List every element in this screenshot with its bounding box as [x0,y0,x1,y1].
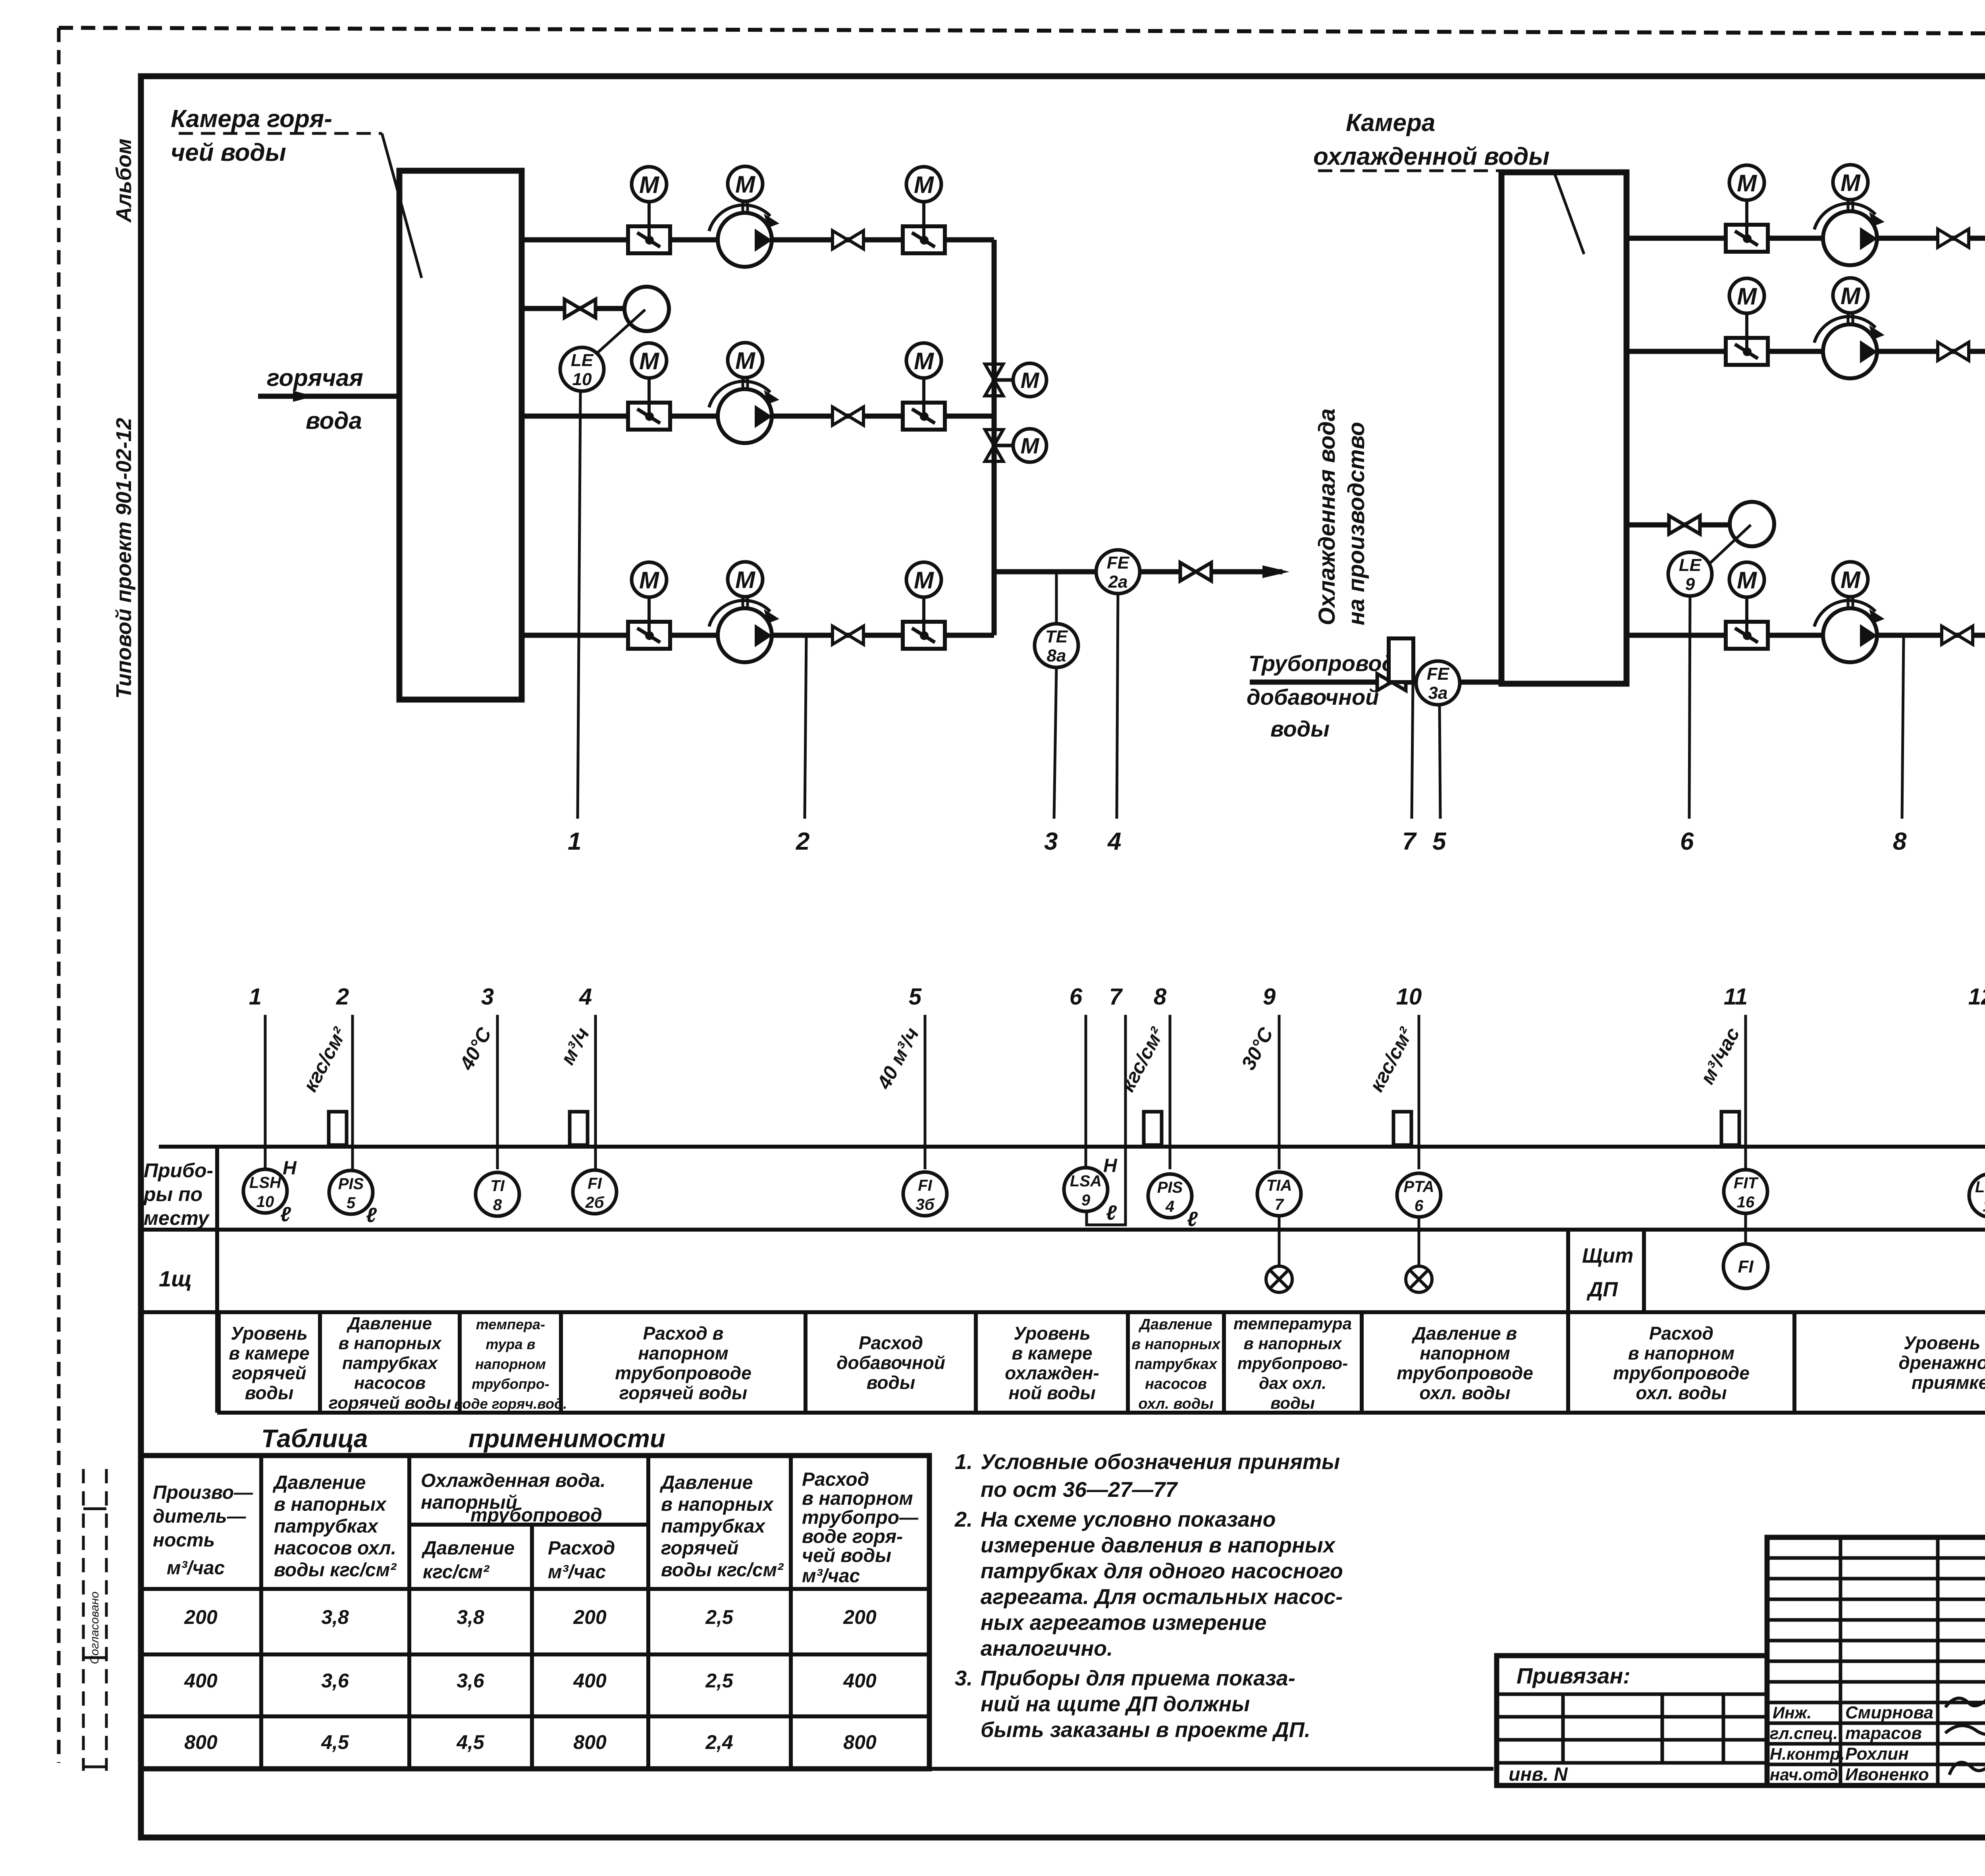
signal line 3 from TE8a [1054,667,1056,819]
svg-text:воды: воды [1270,716,1330,741]
svg-text:4,5: 4,5 [456,1731,485,1753]
svg-text:3.: 3. [955,1666,973,1690]
svg-text:ДП: ДП [1586,1278,1619,1301]
svg-text:LSA: LSA [1975,1178,1985,1196]
svg-text:Расход: Расход [1649,1323,1713,1344]
table row 400 [184,1670,877,1692]
suction valve R1 [1726,200,1768,252]
signature scribbles [1945,1688,1985,1775]
alarm lamp PTA6 [1406,1266,1432,1292]
svg-text:тура в: тура в [486,1336,536,1352]
svg-text:в камере: в камере [229,1343,309,1363]
level element LE10 link [595,310,645,355]
svg-text:добавочной: добавочной [836,1352,945,1373]
signal line 1 from LE10 [578,392,580,819]
check valve L1 [833,231,863,249]
check valve R2 [1938,342,1969,361]
svg-text:4: 4 [1107,828,1121,855]
make-up water pipe [1250,680,1501,685]
pipe pump line R3 [1627,633,1985,638]
svg-text:патрубках: патрубках [342,1353,438,1373]
svg-text:10: 10 [1396,984,1422,1010]
notes text [954,1450,1343,1742]
svg-text:ной воды: ной воды [1008,1382,1095,1403]
svg-text:ний на щите ДП должны: ний на щите ДП должны [981,1692,1250,1716]
svg-text:патрубках для одного насосн: патрубках для одного насосного [981,1559,1343,1583]
svg-text:200: 200 [184,1606,218,1628]
svg-text:трубопрово-: трубопрово- [1237,1354,1348,1373]
inline sensor body [1721,1112,1739,1145]
svg-text:в камере: в камере [1012,1343,1092,1363]
header vent valve lower left [985,430,1013,461]
inline sensor body [570,1112,588,1145]
svg-text:Трубопровод: Трубопровод [1249,651,1395,676]
flow indicator FI on panel [1723,1244,1768,1288]
check valve R1 [1938,229,1969,247]
switch LSH10 [243,1169,287,1213]
svg-text:нач.отд.: нач.отд. [1770,1765,1842,1784]
pipe pump line L1 [522,237,994,243]
svg-text:вода: вода [306,407,362,434]
svg-text:3а: 3а [1428,683,1448,703]
description cell 2 [320,1312,451,1413]
svg-text:4: 4 [579,984,592,1010]
band line bottom [217,1411,1985,1415]
svg-text:400: 400 [573,1670,607,1692]
hot water inlet pipe [258,391,399,402]
svg-text:M: M [914,567,935,594]
svg-text:800: 800 [573,1731,607,1753]
svg-text:Давление: Давление [421,1538,515,1559]
svg-text:3,8: 3,8 [321,1606,349,1628]
description cell 11 [1794,1312,1985,1413]
svg-text:воды: воды [867,1372,915,1393]
level element LE9 link [1705,525,1751,568]
svg-text:темпера-: темпера- [476,1316,545,1332]
svg-text:10: 10 [256,1193,274,1211]
svg-text:2б: 2б [585,1194,604,1211]
svg-text:M: M [1737,170,1758,197]
svg-text:горячей: горячей [232,1363,306,1383]
level tap valve [565,299,595,318]
svg-text:Давление: Давление [659,1472,753,1493]
svg-text:Щит: Щит [1582,1244,1633,1267]
thermometer TI8 [476,1172,519,1216]
svg-text:12: 12 [1968,984,1985,1010]
band line lower [141,1310,1985,1314]
svg-text:9: 9 [1081,1192,1091,1209]
table row 200 [184,1606,877,1628]
svg-text:LSA: LSA [1070,1172,1102,1190]
svg-text:9: 9 [1263,984,1276,1010]
svg-text:ных агрегатов измерение: ных агрегатов измерение [981,1611,1266,1635]
svg-text:2а: 2а [1108,572,1128,592]
svg-text:1: 1 [568,828,581,855]
level float chamber right [1730,502,1774,546]
svg-text:Н: Н [1103,1155,1118,1176]
svg-text:охл. воды: охл. воды [1138,1396,1213,1412]
flow transmitter FIT16 [1724,1170,1767,1213]
svg-text:в напорных: в напорных [338,1334,442,1353]
svg-text:насосов: насосов [354,1373,426,1393]
svg-text:Уровень в: Уровень в [1904,1332,1985,1353]
make-up valve [1377,674,1406,690]
check valve L2 [833,407,863,425]
leader line kamera2 [1318,171,1584,254]
svg-text:FE: FE [1107,553,1130,573]
table header col6 [802,1469,919,1587]
svg-text:1щ: 1щ [159,1266,192,1291]
svg-text:напорном: напорном [1420,1343,1510,1363]
svg-text:8: 8 [1154,984,1167,1010]
svg-text:воды: воды [245,1382,293,1403]
outlet valve left [1180,563,1211,581]
svg-text:горячей воды: горячей воды [619,1382,747,1403]
svg-text:воде горяч.вод.: воде горяч.вод. [454,1396,567,1412]
thermometer TIA7 [1257,1172,1301,1216]
flow element FE2a [1096,550,1140,594]
svg-text:охлажденной воды: охлажденной воды [1313,143,1549,170]
svg-text:FI: FI [588,1175,602,1192]
svg-text:м³/час: м³/час [548,1562,606,1583]
svg-text:LE: LE [571,351,594,370]
svg-text:TE: TE [1045,627,1068,646]
svg-text:Камера горя-: Камера горя- [171,105,332,133]
svg-text:трубопро-: трубопро- [472,1376,549,1392]
outlet pipe after FE2a [1139,569,1181,575]
svg-text:M: M [1840,283,1861,309]
table header col3-4 span [421,1470,615,1583]
svg-text:тарасов: тарасов [1845,1724,1922,1743]
svg-text:ℓ: ℓ [366,1204,377,1227]
svg-text:Таблица: Таблица [261,1424,368,1453]
svg-text:LE: LE [1679,555,1702,575]
pump R1 [1814,200,1885,265]
signal to FI [1744,1213,1747,1244]
inline sensor body [329,1112,347,1145]
signature grid [1767,1537,1985,1785]
svg-text:M: M [735,567,756,593]
svg-text:приямке: приямке [1912,1372,1985,1393]
pipe pump line L3 [522,633,994,638]
svg-text:4,5: 4,5 [321,1731,349,1753]
hot side discharge header [992,240,997,635]
svg-text:2,5: 2,5 [705,1606,734,1628]
svg-text:M: M [914,348,935,374]
svg-text:агрегата. Для остальных н: агрегата. Для остальных насос- [981,1585,1343,1609]
transmitter PTA6 [1397,1173,1441,1217]
signal line 8 tap [1902,635,1904,819]
svg-text:Приборы для приема показ: Приборы для приема показа- [981,1666,1295,1690]
svg-text:2.: 2. [954,1508,973,1531]
svg-text:м³/час: м³/час [802,1566,860,1587]
svg-text:Согласовано: Согласовано [88,1592,101,1664]
discharge valve L2 [903,378,945,430]
svg-text:в напорном: в напорном [802,1488,913,1509]
svg-text:Инж.: Инж. [1773,1703,1812,1722]
svg-text:TIA: TIA [1266,1177,1292,1194]
svg-text:3б: 3б [915,1196,935,1213]
svg-text:напорном: напорном [638,1343,728,1363]
level tap pipe right [1627,523,1730,528]
suction valve R2 [1726,313,1768,365]
svg-text:Альбом: Альбом [112,139,136,223]
svg-text:2,5: 2,5 [705,1670,734,1692]
description cell 8 [1224,1312,1352,1413]
privyazan box [1497,1656,1767,1785]
svg-text:M: M [639,348,660,374]
signature labels [1770,1703,1933,1784]
svg-text:Ивоненко: Ивоненко [1845,1765,1929,1784]
switch LSA9 [1064,1168,1108,1211]
svg-text:4: 4 [1165,1198,1174,1215]
svg-text:M: M [735,347,756,374]
signal line 6 from LE9 [1689,595,1690,819]
gauge PIS4 [1148,1174,1192,1218]
svg-text:M: M [735,171,756,198]
svg-text:Охлажденная вода: Охлажденная вода [1314,409,1340,625]
svg-text:в напорных: в напорных [1243,1334,1342,1353]
svg-text:м³/час: м³/час [167,1558,225,1579]
table header col2 [272,1472,397,1581]
svg-text:1: 1 [249,984,262,1010]
svg-text:дренажном: дренажном [1898,1352,1985,1373]
alarm lamp TIA7 [1266,1266,1292,1292]
hook line 7 to LSA9 [1087,1169,1125,1225]
svg-text:на производство: на производство [1343,422,1369,625]
svg-text:напорном: напорном [475,1356,546,1372]
header vent valve upper left [985,364,1013,396]
suction valve L1 [628,202,670,253]
svg-text:Давление в: Давление в [1411,1323,1517,1344]
svg-text:быть заказаны в проекте: быть заказаны в проекте ДП. [981,1718,1310,1742]
svg-text:2: 2 [796,828,809,855]
svg-text:кгс/см²: кгс/см² [299,1024,351,1095]
svg-text:5: 5 [909,984,922,1010]
svg-text:температура: температура [1233,1314,1352,1333]
svg-text:кгс/см²: кгс/см² [1116,1024,1169,1095]
svg-text:M: M [1737,567,1758,594]
svg-text:2: 2 [336,984,349,1010]
svg-text:400: 400 [184,1670,218,1692]
svg-text:Давление: Давление [272,1472,366,1493]
svg-text:9: 9 [1685,575,1695,594]
band line middle [141,1228,1985,1232]
pump R2 [1814,313,1885,378]
applicability table grid [141,1456,929,1769]
description cell 10 [1568,1312,1750,1413]
hot water chamber [399,171,522,700]
svg-text:M: M [914,172,935,198]
svg-text:Н: Н [283,1158,297,1179]
svg-text:измерение давления в напорны: измерение давления в напорных [981,1533,1336,1557]
discharge valve L1 [903,202,945,253]
svg-text:FI: FI [918,1177,932,1194]
svg-text:5: 5 [347,1194,356,1212]
svg-text:Типовой проект 901-02-12: Типовой проект 901-02-12 [112,418,136,699]
svg-text:кгс/см²: кгс/см² [423,1562,490,1583]
svg-text:Произво—: Произво— [153,1482,253,1503]
description cell 7 [1128,1312,1221,1413]
svg-text:3: 3 [481,984,494,1010]
svg-text:Смирнова: Смирнова [1845,1703,1933,1722]
svg-text:800: 800 [843,1731,877,1753]
temperature element TE8a tap [1055,572,1058,625]
svg-text:в напорных: в напорных [661,1494,774,1515]
svg-text:40 м³/ч: 40 м³/ч [873,1024,923,1093]
check valve L3 [833,626,863,644]
pipe pump line L2 [522,414,994,419]
svg-text:7: 7 [1275,1196,1284,1213]
pump L3 [709,597,779,662]
outer border left [57,28,61,1763]
svg-text:Расход: Расход [548,1538,615,1559]
svg-text:м³/час: м³/час [1696,1024,1744,1088]
svg-text:200: 200 [843,1606,877,1628]
svg-text:патрубках: патрубках [661,1516,766,1537]
svg-text:LSH: LSH [249,1174,281,1192]
gauge PIS5 [329,1170,373,1214]
svg-text:добавочной: добавочной [1247,684,1379,710]
leader line kamera1 [179,133,422,278]
pipe pump line R2 [1627,349,1985,354]
svg-text:FIT: FIT [1734,1174,1759,1192]
band line top [159,1145,1985,1149]
svg-text:чей воды: чей воды [171,139,286,166]
svg-text:FI: FI [1738,1257,1754,1276]
svg-text:M: M [1021,433,1040,458]
svg-text:Расход в: Расход в [643,1323,724,1344]
svg-text:аналогично.: аналогично. [981,1637,1113,1660]
svg-text:Уровень: Уровень [1014,1323,1091,1344]
svg-text:3: 3 [1044,828,1058,855]
svg-text:Привязан:: Привязан: [1517,1663,1630,1688]
description cell 9 [1362,1312,1533,1413]
svg-text:патрубках: патрубках [274,1516,379,1537]
svg-text:Охлажденная вода.: Охлажденная вода. [421,1470,605,1491]
svg-text:M: M [1737,283,1758,310]
flow indicator FI2b [573,1170,617,1214]
svg-text:м³/ч: м³/ч [556,1024,594,1068]
svg-text:3,8: 3,8 [457,1606,484,1628]
svg-text:насосов охл.: насосов охл. [274,1538,396,1559]
svg-text:На схеме условно показано: На схеме условно показано [981,1508,1276,1531]
svg-text:инв. N: инв. N [1509,1764,1568,1785]
svg-text:ℓ: ℓ [280,1203,291,1226]
svg-text:охл. воды: охл. воды [1419,1382,1510,1403]
svg-text:по ост 36—27—77: по ост 36—27—77 [981,1478,1178,1502]
temperature element TE8a [1035,624,1078,667]
svg-text:воды кгс/см²: воды кгс/см² [274,1560,397,1581]
svg-text:11: 11 [1724,984,1748,1010]
svg-text:Расход: Расход [859,1332,923,1353]
svg-text:Прибо-: Прибо- [144,1159,213,1182]
level float chamber [624,287,669,331]
svg-text:Условные обозначения приняты: Условные обозначения приняты [981,1450,1340,1474]
left margin stamp column [83,1469,106,1771]
inline sensor body [1393,1112,1411,1145]
svg-text:ры по: ры по [143,1183,202,1205]
svg-text:воды кгс/см²: воды кгс/см² [661,1560,784,1581]
svg-text:8: 8 [493,1196,502,1214]
svg-text:трубопроводе: трубопроводе [1397,1363,1533,1383]
svg-text:охл. воды: охл. воды [1636,1382,1727,1403]
svg-text:10: 10 [572,370,592,389]
svg-text:6: 6 [1680,828,1694,855]
svg-text:месту: месту [144,1207,210,1229]
description cell 1 [219,1312,310,1413]
description cell 4 [561,1312,752,1413]
svg-text:горячей воды: горячей воды [329,1393,451,1413]
svg-text:в напорном: в напорном [1628,1343,1734,1363]
suction valve L3 [628,597,670,649]
description cell 3 [454,1312,567,1413]
svg-text:5: 5 [1432,828,1447,855]
signal to lamp PTA6 [1418,1216,1420,1266]
svg-text:дитель—: дитель— [153,1506,247,1527]
svg-text:в напорных: в напорных [1131,1336,1221,1353]
svg-text:11: 11 [1983,1197,1985,1215]
cooled water chamber [1501,172,1627,684]
svg-text:горячая: горячая [267,364,363,391]
signal to lamp TIA7 [1278,1215,1281,1266]
level element LE9 [1668,552,1712,596]
svg-text:M: M [639,567,660,594]
svg-text:Уровень: Уровень [231,1323,308,1344]
svg-text:горячей: горячей [661,1538,738,1559]
svg-text:M: M [1021,368,1040,393]
svg-text:охлажден-: охлажден- [1005,1363,1099,1383]
discharge valve L3 [903,597,945,649]
switch LSA11 [1969,1174,1985,1217]
svg-text:дах охл.: дах охл. [1259,1374,1326,1392]
suction valve L2 [628,378,670,430]
signal line 2 tap [805,635,806,819]
flow element FE3a [1416,661,1460,705]
svg-text:3,6: 3,6 [321,1670,349,1692]
svg-text:патрубках: патрубках [1135,1356,1218,1373]
svg-text:трубопроводе: трубопроводе [615,1363,752,1383]
suction valve R3 [1726,597,1768,649]
svg-text:M: M [1840,170,1861,196]
svg-text:воде горя-: воде горя- [802,1526,903,1547]
make-up flow nozzle [1389,638,1413,682]
level tap pipe [522,306,624,311]
svg-text:Камера: Камера [1346,109,1435,137]
level tap valve right [1669,516,1700,534]
svg-text:1.: 1. [955,1450,973,1474]
table header col5 [659,1472,784,1581]
outer border top [59,28,1985,35]
band left divider [215,1147,219,1413]
svg-text:16: 16 [1737,1193,1755,1211]
svg-text:7: 7 [1109,984,1123,1010]
svg-text:чей воды: чей воды [802,1545,891,1566]
table row 800 [184,1731,877,1753]
svg-text:30°С: 30°С [1237,1024,1278,1074]
inline sensor body [1144,1112,1162,1145]
signal line 5 from FE3a [1440,704,1440,819]
svg-text:Давление: Давление [346,1314,432,1333]
svg-text:800: 800 [184,1731,218,1753]
svg-text:Расход: Расход [802,1469,869,1490]
pump R3 [1814,597,1885,662]
svg-text:ℓ: ℓ [1187,1208,1198,1231]
svg-text:трубопро—: трубопро— [802,1507,919,1528]
check valve R3 [1942,626,1973,644]
svg-text:M: M [1840,567,1861,593]
pipe pump line R1 [1627,236,1985,241]
